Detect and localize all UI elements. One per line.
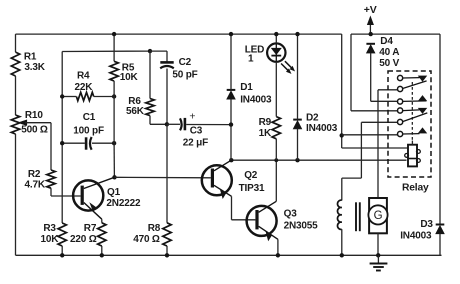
svg-text:R3: R3 [43,223,56,234]
relay dashed enclosure [388,71,431,177]
transistor Q2 [202,160,232,198]
wire bottom ground rail [16,254,442,256]
relay contact terminal c3 [398,99,427,104]
node LED top junction [274,32,278,36]
wire Q2 emitter to Q3 base [232,196,256,220]
label G [374,210,383,222]
resistor R8 [163,223,171,246]
svg-text:IN4003: IN4003 [400,231,432,242]
resistor R5 [110,61,118,81]
label R3 value [41,223,60,245]
wire field coil to bottom rail [341,229,343,255]
label R10 value [21,110,48,135]
wire field coil elbow [342,178,362,200]
diode D1 [227,90,236,99]
wire D4 bottom elbow [371,53,398,101]
wire R5 rail down [113,81,115,177]
wire Q1 emitter to R7 [101,219,103,223]
node R4 right junction [112,94,116,98]
svg-text:D1: D1 [240,82,253,93]
diode D2 [293,120,302,129]
svg-text:R8: R8 [148,223,161,234]
resistor R4 [76,92,93,100]
node D1/C3 junction [229,122,233,126]
relay contact NO triangle T4 [418,128,426,133]
core bars [356,202,360,231]
label R5 value [120,62,139,83]
wire D2 bottom lead [297,129,299,160]
wire LED top lead [275,34,277,43]
wire R6 top lead [149,51,151,98]
LED 1 [267,43,285,61]
wire supply left edge [351,34,398,111]
wire left rail R1-R10 [15,76,17,115]
svg-text:1K: 1K [259,128,272,139]
wire motor column to contact c2 [378,90,398,198]
svg-text:+V: +V [364,4,377,16]
label LED 1 [245,44,264,64]
svg-text:22K: 22K [75,82,94,93]
node D4 top junction [369,32,373,36]
relay contact terminal c6 [398,131,420,136]
node R7 bottom junction [100,253,104,257]
label R4 value [75,71,94,93]
wire relay supply top edge [351,33,440,35]
svg-text:R2: R2 [28,169,41,180]
wire C3 left lead [167,123,180,125]
svg-text:G: G [374,210,383,222]
wire R4 right lead [94,96,114,98]
svg-text:C2: C2 [179,57,192,68]
wire field coil column to contact c5 [361,122,397,178]
node C2/C3/R8 junction [165,122,169,126]
wire R7 to bottom rail [101,246,103,255]
label Q3 value [284,209,319,232]
label Q1 value [106,187,141,209]
node field coil bottom junction [340,253,344,257]
node D2 bottom junction [295,158,299,162]
node R3 bottom junction [60,253,64,257]
svg-text:IN4003: IN4003 [240,95,272,106]
node D1 top junction [229,32,233,36]
svg-text:Q1: Q1 [107,187,121,198]
node y51 right junction [148,49,152,53]
wire main rail right drop [342,34,408,148]
node Q2 collector junction [229,158,233,162]
wire left rail R10-bottom [15,134,17,255]
wire top supply rail [16,33,342,35]
svg-text:40 A: 40 A [379,47,399,58]
wire C2 top lead [150,51,167,62]
svg-text:IN4003: IN4003 [306,123,338,134]
node relay NO-B branch junction [340,133,344,137]
relay coil [405,141,421,167]
LED emission arrow 2 [285,61,295,71]
label Q2 value [239,170,265,194]
svg-text:D2: D2 [306,113,319,124]
svg-text:D4: D4 [380,36,393,47]
resistor R9 [272,117,280,139]
transistor Q1 [73,177,114,219]
wire R9 bottom lead [275,139,277,160]
node motor bottom junction [376,253,380,257]
node R5 top junction [112,32,116,36]
wire Q2 base wire [115,176,211,179]
node R8 bottom junction [165,253,169,257]
wire R4 left lead [62,96,76,98]
wire to relay contact c6 [342,134,398,136]
svg-text:Q2: Q2 [244,170,258,181]
diode D4 [366,44,375,53]
relay linkage dashed line [411,82,413,141]
wire collector output bus [231,159,406,161]
svg-text:10K: 10K [120,72,139,83]
resistor R1 [11,52,19,76]
node D2 top junction [295,32,299,36]
node R4 left junction [60,94,64,98]
wire wiper to R2 [50,123,52,170]
label D1 value [240,82,272,106]
capacitor C2 [160,62,174,68]
svg-text:Q3: Q3 [284,209,298,220]
svg-text:+: + [189,110,195,122]
node C1 right junction [112,141,116,145]
svg-text:R10: R10 [25,110,43,121]
svg-text:R7: R7 [84,223,97,234]
wire y51 cross wire [62,50,150,52]
resistor R6 [146,99,154,116]
node C1 left junction [60,141,64,145]
label D2 value [306,113,338,135]
wire D1 bottom lead [230,99,232,160]
wire C1 left lead [62,142,85,144]
svg-text:10K: 10K [41,234,60,245]
wire C2 bottom lead [166,69,168,125]
relay contact NO triangle T2 [418,96,426,101]
node Q3 emitter junction [276,253,280,257]
relay contact NC triangle T1 [418,76,426,81]
svg-text:2N3055: 2N3055 [284,221,319,232]
label C1 value [73,112,104,136]
wire R2 to Q1 base [51,188,81,196]
wire C1 right lead [92,142,114,144]
svg-text:4.7K: 4.7K [25,180,46,191]
wire D1 top lead [230,34,232,90]
svg-text:2N2222: 2N2222 [106,198,141,209]
wire R8 top lead [166,124,168,223]
svg-text:TIP31: TIP31 [239,183,265,194]
label R8 value [133,223,161,245]
inductor field coil [337,200,341,229]
label R6 value [126,96,145,117]
svg-text:220 Ω: 220 Ω [70,234,97,245]
svg-text:R4: R4 [77,71,90,82]
svg-text:470 Ω: 470 Ω [133,234,160,245]
wire D3 to bottom rail [439,234,441,256]
label C3 value [183,125,208,148]
label R7 value [70,223,97,245]
svg-text:R1: R1 [24,51,37,62]
svg-text:50 pF: 50 pF [172,70,197,81]
svg-text:100 pF: 100 pF [73,125,104,136]
svg-text:1: 1 [248,54,254,65]
wire R6 bottom elbow [150,116,167,125]
label R9 value [259,117,272,139]
node R9/Q3 collector junction [274,158,278,162]
svg-text:C3: C3 [190,125,203,136]
svg-text:Relay: Relay [402,183,429,194]
capacitor C3 [180,118,185,130]
wire R8 to bottom rail [166,246,168,255]
wire motor to bottom rail [377,233,379,255]
ground symbol [370,255,388,270]
wire R5 top lead [113,34,115,61]
wire left rail upper (to R1) [15,34,17,52]
svg-text:22 μF: 22 μF [183,138,208,149]
svg-text:R9: R9 [259,117,272,128]
node feedback rail corner [61,52,63,224]
label D4 value [379,36,399,69]
wire R3 to bottom rail [61,246,63,255]
label R1 value [24,51,46,73]
wiper arrow of R10 [18,120,51,126]
svg-text:500 Ω: 500 Ω [21,124,48,135]
svg-text:C1: C1 [83,112,96,123]
resistor R10 (rheostat) [11,115,19,134]
relay contact terminal c5 (common B) [398,113,428,125]
motor G body [368,198,387,233]
wire C3 right lead [186,124,231,126]
label C2 value [172,57,197,81]
wire Q3 emitter to bottom rail [277,239,279,255]
LED emission arrow 1 [281,64,291,74]
svg-text:50 V: 50 V [379,58,399,69]
relay contact NC triangle T3 [418,108,426,113]
wire supply right edge [439,34,441,224]
power +V arrow [367,16,373,34]
resistor R7 [98,223,106,246]
svg-text:3.3K: 3.3K [24,62,45,73]
resistor R2 [47,170,55,188]
wire LED to R9 [275,62,277,117]
svg-text:D3: D3 [420,219,433,230]
capacitor C1 [86,137,92,150]
resistor R3 [58,223,66,246]
label +V [364,4,377,16]
wire Q3 collector up [275,160,277,201]
diode D3 [436,225,445,234]
relay contact terminal c4 [398,108,420,113]
relay contact terminal c1 [398,75,420,80]
svg-text:56K: 56K [126,106,145,117]
label Relay [402,183,429,194]
node Q1 collector junction [112,175,116,179]
label R2 value [25,169,46,191]
label C3 plus sign [189,110,195,122]
wire D2 top lead [297,34,299,120]
relay contact terminal c2 (common A) [398,81,427,92]
transistor Q3 [247,201,278,240]
label D3 value [400,219,433,241]
